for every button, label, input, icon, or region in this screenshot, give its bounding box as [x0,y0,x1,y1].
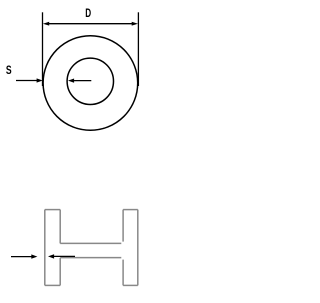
svg-text:S: S [6,65,12,78]
svg-text:D: D [85,8,91,21]
